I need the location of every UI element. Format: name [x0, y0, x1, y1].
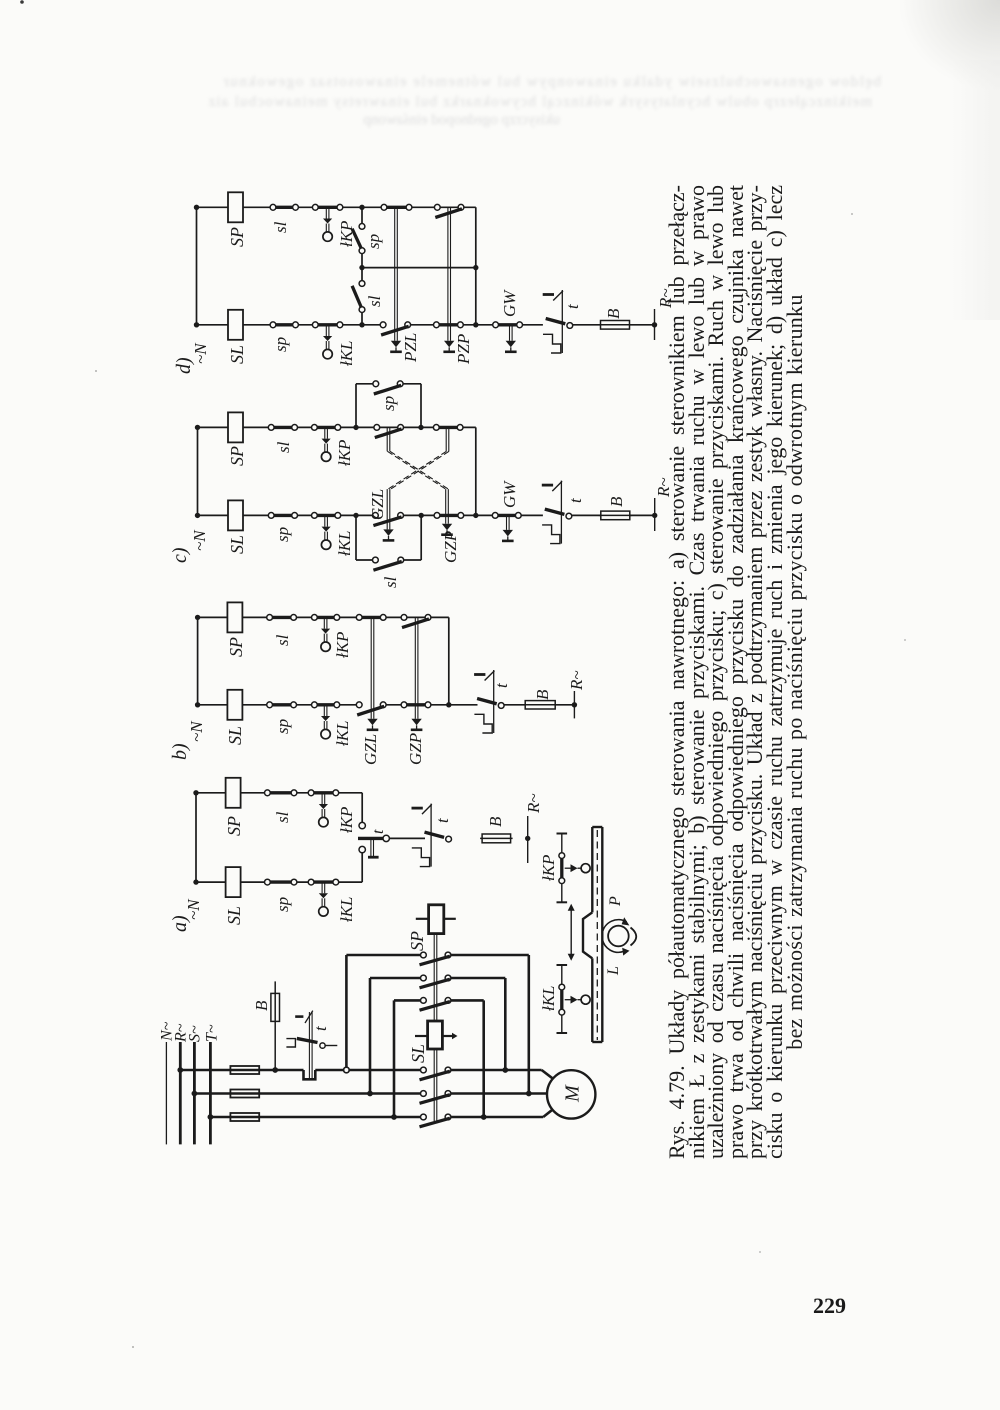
svg-text:T~: T~	[203, 1024, 220, 1042]
label SP (c)	[227, 446, 247, 466]
svg-text:łKP: łKP	[337, 807, 356, 833]
svg-text:B: B	[607, 496, 626, 507]
svg-text:~N: ~N	[184, 898, 203, 920]
label sp (d, chain)	[364, 234, 383, 249]
wire SP branch (c)	[198, 426, 476, 428]
label SP (contactor)	[407, 931, 427, 951]
junction dot SP3-lead3	[481, 1114, 487, 1120]
fuse B (b)	[523, 701, 557, 709]
thermal relay t contact (control)	[286, 1011, 337, 1079]
lead screw (dashed)	[596, 830, 598, 1040]
junction dot bottom-right (d)	[473, 322, 478, 327]
wire SL branch (a)	[196, 853, 362, 882]
contact sl (c, bypass)	[373, 557, 404, 570]
label łKP (c)	[335, 440, 354, 466]
label sl (c)	[274, 441, 293, 453]
svg-text:t: t	[566, 497, 585, 503]
junction dot SP2-phaseS	[367, 1091, 373, 1097]
svg-text:sl: sl	[273, 811, 292, 823]
fuse B (a)	[480, 834, 512, 843]
label GW (d)	[500, 289, 519, 317]
contact sl (d, SP branch)	[270, 204, 298, 210]
label SL (a)	[224, 906, 244, 925]
svg-text:SL: SL	[227, 535, 247, 554]
phase wire T	[210, 1116, 420, 1119]
switch GZL closed contact (b, SP branch)	[356, 615, 386, 621]
contact łKL (a)	[308, 879, 338, 916]
svg-text:łKL: łKL	[337, 896, 356, 922]
switch PZL open contact (d, SL branch)	[380, 322, 410, 335]
wire SP branch (b)	[198, 616, 449, 618]
contact łKP (c)	[312, 425, 341, 462]
motion double arrow	[568, 904, 575, 961]
junction dot middle-right (d)	[473, 265, 478, 270]
svg-text:łKL: łKL	[539, 985, 558, 1011]
junction dot rail-bottom (c)	[195, 513, 200, 518]
switch PZP open contact (d, SP branch)	[434, 204, 464, 217]
fuse B (control)	[271, 993, 280, 1021]
junction dot loop-bottom-right (c)	[419, 513, 424, 518]
svg-text:t: t	[492, 682, 511, 688]
wire middle node line (d)	[362, 267, 476, 269]
node ~N (diagram b)	[187, 720, 206, 742]
supply rail R~	[179, 1042, 182, 1144]
fuse B (c)	[599, 511, 632, 520]
bleed-through ghost text lines	[163, 74, 881, 91]
svg-text:t: t	[433, 817, 452, 823]
label R~ (c)	[654, 477, 673, 498]
contact sp (c, SL branch)	[268, 513, 297, 519]
svg-text:B: B	[533, 689, 552, 700]
label SP (d)	[227, 227, 247, 247]
diagram d) label	[173, 357, 195, 374]
junction dot node B (d)	[359, 322, 364, 327]
svg-text:M: M	[562, 1084, 584, 1103]
contact sl (b, SP branch)	[267, 615, 297, 621]
coil SP (b)	[227, 602, 242, 632]
junction dot loop-top-left (c)	[353, 425, 358, 430]
label sp (a)	[273, 897, 292, 912]
supply rail S~	[193, 1042, 196, 1144]
handwheel	[602, 917, 636, 955]
svg-text:sp: sp	[273, 527, 292, 542]
fuse phase T	[230, 1113, 259, 1121]
figure caption (rotated)	[667, 185, 804, 1159]
motor lead 2	[451, 1092, 548, 1095]
junction dot loop-bottom-left (c)	[353, 513, 358, 518]
switch GZL linkage (b)	[367, 617, 379, 729]
cam dog on slide	[583, 912, 592, 958]
wire SP3 left	[394, 1000, 421, 1117]
label łKL (d)	[337, 340, 356, 366]
svg-text:SP: SP	[226, 637, 246, 657]
junction dot phase T tap	[208, 1114, 214, 1120]
junction dot SP3-phaseT	[391, 1114, 397, 1120]
svg-text:sl: sl	[274, 441, 293, 453]
label łKL (mechanism)	[539, 985, 558, 1011]
fuse phase R	[230, 1066, 259, 1074]
contact sp (c, bypass)	[373, 381, 403, 394]
terminal R~ (a)	[525, 816, 530, 863]
contact łKL (d)	[312, 322, 342, 359]
label sl (d, chain)	[365, 295, 384, 307]
wire sl bypass loop (c)	[356, 515, 421, 560]
wire SP branch (d)	[197, 206, 476, 208]
node ~N (diagram c)	[190, 529, 209, 551]
junction dot control tap B	[272, 1067, 278, 1073]
label łKP (mechanism)	[539, 855, 558, 881]
switch PZP closed contact (d, SL branch)	[434, 322, 464, 328]
junction dot loop-top-right (c)	[418, 425, 423, 430]
contact łKP (d)	[312, 204, 342, 241]
svg-text:SP: SP	[227, 446, 247, 466]
svg-text:GZL: GZL	[368, 489, 387, 520]
label t (a, relay)	[433, 817, 452, 823]
svg-text:S~: S~	[186, 1025, 203, 1042]
svg-text:P: P	[607, 896, 624, 907]
node ~N (diagram a)	[184, 898, 203, 920]
label GW (c)	[500, 480, 519, 508]
diagram c) label	[169, 547, 191, 563]
junction dot rail-top (b)	[195, 615, 200, 620]
supply rail N~	[165, 1042, 167, 1144]
coil SP (c)	[228, 412, 243, 442]
label B (c)	[607, 496, 626, 507]
switch GZP closed contact (c, SL branch)	[434, 513, 464, 519]
wire right link (c)	[475, 427, 477, 515]
switch GZP open contact (c, SP branch)	[374, 425, 404, 438]
junction dot phase S tap	[192, 1091, 198, 1097]
svg-text:łKP: łKP	[539, 855, 558, 881]
contact sl (a, SP branch)	[265, 790, 297, 796]
contact łKP (b)	[312, 615, 340, 652]
coil SL (b)	[227, 690, 242, 720]
contactor SP armature box	[416, 905, 456, 934]
svg-text:łKP: łKP	[335, 440, 354, 466]
terminal R~ (d)	[652, 309, 657, 340]
label łKL (a)	[337, 896, 356, 922]
contact sp (d, chain)	[352, 224, 365, 254]
wire right link (b)	[448, 617, 450, 704]
label GZL (c)	[368, 489, 387, 520]
wire SP1 right	[451, 955, 529, 1094]
wire SP2 right	[451, 978, 506, 1070]
svg-text:SL: SL	[408, 1044, 428, 1063]
diagram a) label	[169, 915, 191, 932]
switch GZL open contact (c, SL branch)	[373, 513, 404, 526]
svg-text:SL: SL	[225, 726, 245, 745]
node ~N (diagram d)	[191, 342, 210, 364]
wire selector-to-t (a)	[389, 837, 425, 839]
wire SP3 right	[451, 1000, 484, 1117]
svg-text:~N: ~N	[187, 720, 206, 742]
contact sp (a, SL branch)	[265, 879, 297, 885]
svg-text:łKL: łKL	[337, 340, 356, 366]
svg-text:sl: sl	[273, 634, 292, 646]
svg-text:GZP: GZP	[406, 733, 425, 765]
fuse phase S	[230, 1090, 259, 1098]
label R~ (d)	[656, 288, 675, 309]
svg-text:sp: sp	[273, 719, 292, 734]
label GZP (b)	[406, 733, 425, 765]
label B (d)	[604, 308, 623, 319]
svg-text:GZP: GZP	[441, 531, 460, 563]
coil SL (c)	[228, 500, 243, 530]
label L (rotation)	[605, 966, 622, 976]
switch PZL closed contact (d, SP branch)	[381, 204, 412, 210]
label t (b)	[492, 682, 511, 688]
svg-text:GW: GW	[500, 480, 519, 508]
label N~	[158, 1021, 175, 1042]
phase wire S	[194, 1092, 420, 1095]
label R~ (supply)	[172, 1023, 189, 1043]
svg-text:GZL: GZL	[361, 734, 380, 765]
svg-text:SP: SP	[227, 227, 247, 247]
label łKL (b)	[333, 720, 352, 746]
label M	[562, 1084, 584, 1103]
contact łKP (a)	[308, 790, 338, 827]
label SL (c)	[227, 535, 247, 554]
supply rail ~N (a)	[195, 793, 197, 882]
label sp (d)	[271, 337, 290, 352]
svg-text:SL: SL	[224, 906, 244, 925]
machine slide rail	[592, 827, 602, 1042]
motor lead 1	[451, 1070, 553, 1078]
coil SP (d)	[228, 192, 243, 222]
label t (thermal)	[311, 1025, 330, 1031]
switch GW linkage (c)	[502, 515, 514, 541]
junction dot rail-top (d)	[194, 205, 199, 210]
wire sp bypass loop (c)	[356, 384, 421, 428]
svg-text:SL: SL	[227, 345, 247, 364]
label łKP (d)	[337, 221, 356, 247]
label łKP (a)	[337, 807, 356, 833]
label sl (b)	[273, 634, 292, 646]
contactor SL armature box	[415, 1021, 458, 1049]
contactor SP main contact 3	[420, 998, 451, 1011]
label SL (contactor)	[408, 1044, 428, 1063]
svg-text:sl: sl	[271, 221, 290, 233]
junction dot rail-bottom (b)	[195, 702, 200, 707]
switch GZL closed contact (c, SP branch)	[433, 425, 463, 431]
contactor linkage (SP-SL)	[434, 934, 437, 1121]
label t (c)	[566, 497, 585, 503]
wire SP branch (a)	[196, 793, 362, 823]
junction dot rail-top (c)	[195, 425, 200, 430]
switch GZL open contact (b, SL branch)	[356, 702, 386, 715]
time contact t (d)	[543, 290, 573, 353]
label sp (c, bypass)	[379, 396, 398, 411]
time contact t (b)	[474, 670, 504, 733]
label GZL (b)	[361, 734, 380, 765]
contact sl (c, SP branch)	[268, 425, 297, 431]
label S~	[186, 1025, 203, 1042]
svg-text:B: B	[604, 308, 623, 319]
junction dot rail-top (a)	[193, 790, 198, 795]
label sl (a)	[273, 811, 292, 823]
wire SL branch (b)	[198, 704, 575, 706]
svg-text:sl: sl	[365, 295, 384, 307]
svg-text:GW: GW	[500, 289, 519, 317]
label P (rotation)	[607, 896, 624, 907]
svg-text:PZL: PZL	[401, 333, 420, 363]
label sp (b)	[273, 719, 292, 734]
svg-text:~N: ~N	[190, 529, 209, 551]
svg-text:B: B	[252, 1000, 271, 1011]
phase wire R with heater notch	[180, 1070, 420, 1079]
svg-text:R~: R~	[567, 670, 586, 691]
coil SL (d)	[228, 310, 243, 340]
label PZP	[454, 334, 473, 365]
label sl (d)	[271, 221, 290, 233]
svg-text:łKL: łKL	[333, 720, 352, 746]
svg-text:t: t	[563, 303, 582, 309]
contactor SL main contact 3	[420, 1114, 451, 1127]
svg-text:sl: sl	[381, 576, 400, 588]
label SP (b)	[226, 637, 246, 657]
coil SL (a)	[226, 867, 241, 897]
label SL (d)	[227, 345, 247, 364]
switch GZP open contact (b, SP branch)	[401, 615, 431, 628]
terminal R~ (c)	[652, 498, 657, 531]
junction dot SP1-lead2	[526, 1091, 532, 1097]
selector t changeover contact (a)	[358, 822, 389, 857]
corner shading top-right	[900, 0, 1000, 90]
switch PZP linkage	[443, 207, 455, 351]
junction dot SP2-lead1	[502, 1067, 508, 1073]
supply rail ~N (c)	[197, 427, 199, 515]
junction dot rail-bottom (d)	[194, 322, 199, 327]
wire SP2 left	[370, 978, 421, 1094]
svg-text:L: L	[605, 966, 622, 976]
junction dot node A (d)	[359, 205, 364, 210]
switch PZL linkage	[390, 207, 402, 351]
contact łKL (b)	[312, 702, 340, 739]
svg-text:t: t	[311, 1025, 330, 1031]
switch GZP linkage (b)	[411, 617, 423, 729]
switch GZL linkage (c)	[383, 427, 449, 540]
svg-text:t: t	[370, 829, 387, 834]
contactor SP main contact 1	[420, 952, 451, 965]
svg-text:SP: SP	[224, 816, 244, 836]
diagram b) label	[169, 743, 191, 760]
svg-text:sp: sp	[379, 396, 398, 411]
svg-text:~N: ~N	[191, 342, 210, 364]
svg-text:łKL: łKL	[335, 530, 354, 556]
switch GW linkage (d)	[505, 325, 517, 352]
wire SL branch (d)	[197, 324, 655, 326]
svg-text:SP: SP	[407, 931, 427, 951]
motor M	[547, 1070, 595, 1118]
contactor SL main contact 1	[420, 1067, 451, 1080]
contactor SP main contact 2	[420, 975, 451, 988]
svg-text:sp: sp	[273, 897, 292, 912]
svg-text:B: B	[486, 816, 505, 827]
contact GW (d)	[493, 322, 523, 328]
time contact t (c)	[542, 481, 572, 544]
label R~ (b)	[567, 670, 586, 691]
wire sp-sl chain (d)	[361, 207, 363, 324]
contact sl (d, chain)	[352, 281, 365, 313]
coil SP (a)	[226, 778, 241, 808]
svg-text:229: 229	[813, 1293, 846, 1318]
limit switch łKL (mechanism)	[557, 965, 591, 1033]
wire SP1 left	[346, 955, 420, 1067]
junction dot middle-left (d)	[359, 265, 364, 270]
junction dot bottom-right (b)	[446, 702, 451, 707]
contactor SL main contact 2	[420, 1091, 451, 1104]
label sp (c)	[273, 527, 292, 542]
label R~ (a)	[524, 793, 543, 814]
svg-text:PZP: PZP	[454, 334, 473, 365]
switch GZP closed contact (b, SL branch)	[401, 702, 431, 708]
fuse B (d)	[599, 321, 632, 330]
label SP (a)	[224, 816, 244, 836]
switch GZP linkage (c)	[387, 427, 453, 534]
svg-text:sp: sp	[271, 337, 290, 352]
wire control tap	[274, 981, 276, 1070]
label T~	[203, 1024, 220, 1042]
motor lead 3	[451, 1110, 553, 1117]
svg-text:b): b)	[169, 743, 191, 760]
label GZP (c)	[441, 531, 460, 563]
wire right link (d)	[475, 207, 477, 324]
time contact t (a)	[412, 804, 452, 867]
wire SL branch (c)	[198, 514, 655, 516]
limit switch łKP (mechanism)	[557, 834, 591, 903]
label t (a, selector)	[370, 829, 387, 834]
contact sp (d, SL branch)	[270, 322, 298, 328]
label SL (b)	[225, 726, 245, 745]
svg-text:sp: sp	[364, 234, 383, 249]
supply rail ~N (b)	[197, 617, 199, 704]
terminal circle SP1-phaseR	[344, 1067, 350, 1073]
supply rail ~N (diagram d)	[196, 207, 198, 324]
label sl (c, bypass)	[381, 576, 400, 588]
label B (b)	[533, 689, 552, 700]
svg-text:c): c)	[169, 547, 191, 563]
label B (a)	[486, 816, 505, 827]
contact GW (c)	[492, 513, 521, 519]
supply rail T~	[209, 1042, 212, 1144]
svg-text:R~: R~	[524, 793, 543, 814]
label łKP (b)	[333, 632, 352, 658]
svg-text:łKP: łKP	[333, 632, 352, 658]
label PZL	[401, 333, 420, 363]
junction dot bottom-right (c)	[473, 513, 478, 518]
junction dot rail-bottom (a)	[193, 879, 198, 884]
label t (d)	[563, 303, 582, 309]
contact łKL (c)	[312, 513, 341, 550]
label B (control fuse)	[252, 1000, 271, 1011]
terminal R~ (b)	[572, 691, 577, 718]
contact sp (b, SL branch)	[267, 702, 297, 708]
junction dot phase R tap	[177, 1067, 183, 1073]
label łKL (c)	[335, 530, 354, 556]
